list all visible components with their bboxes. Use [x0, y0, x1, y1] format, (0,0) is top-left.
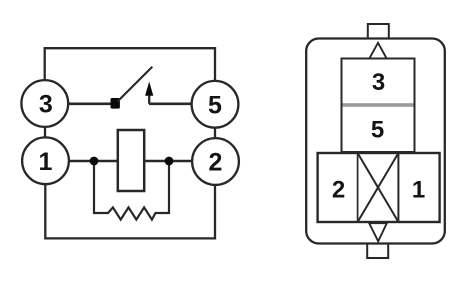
terminal 5	[192, 81, 239, 128]
wire terminal 5 to terminal 2	[214, 128, 216, 139]
wire bottom loop (terminal 1 to terminal 2)	[45, 185, 215, 239]
connector index arrow top	[369, 43, 386, 59]
switch S1 blade (open)	[118, 67, 153, 102]
svg-text:3: 3	[372, 69, 385, 96]
terminal 2	[192, 138, 239, 185]
connector bottom locking tab	[367, 242, 388, 258]
svg-text:1: 1	[412, 177, 425, 204]
svg-text:5: 5	[371, 117, 384, 144]
connector index arrow bottom	[369, 223, 387, 241]
svg-text:2: 2	[332, 177, 345, 204]
wire terminal 3 to terminal 1	[44, 127, 46, 138]
keyway cell left edge	[357, 153, 359, 222]
connector top locking tab	[368, 24, 389, 40]
terminal 3	[21, 80, 68, 127]
connector body	[306, 39, 445, 244]
resistor R (parallel branch)	[94, 161, 169, 220]
wire top loop (terminal 3 to terminal 5)	[45, 48, 215, 80]
relay coil K1	[118, 130, 144, 191]
svg-text:5: 5	[208, 91, 222, 119]
pin cavity 3	[342, 59, 415, 106]
pin cavity row (2 / keyway / 1)	[318, 153, 440, 222]
pin cavity 5	[342, 105, 415, 152]
svg-text:2: 2	[209, 149, 223, 177]
terminal 1	[22, 137, 69, 184]
junction node right (pin 2 side)	[165, 157, 174, 166]
wire terminal 3 to switch contact	[68, 103, 113, 106]
keyway cross (blocked cavity)	[358, 153, 399, 222]
svg-text:3: 3	[39, 91, 53, 119]
keyway cell right edge	[397, 153, 399, 222]
switch S1 actuation arrow	[145, 82, 153, 104]
svg-text:1: 1	[39, 148, 53, 176]
junction node left (pin 1 side)	[90, 157, 99, 166]
wire terminal 1 to terminal 2 (through coil)	[69, 160, 193, 163]
wire switch arm to terminal 5	[149, 103, 192, 106]
switch S1 fixed contact (junction dot)	[111, 98, 120, 109]
divider between cavity 3 and 5	[343, 103, 414, 107]
